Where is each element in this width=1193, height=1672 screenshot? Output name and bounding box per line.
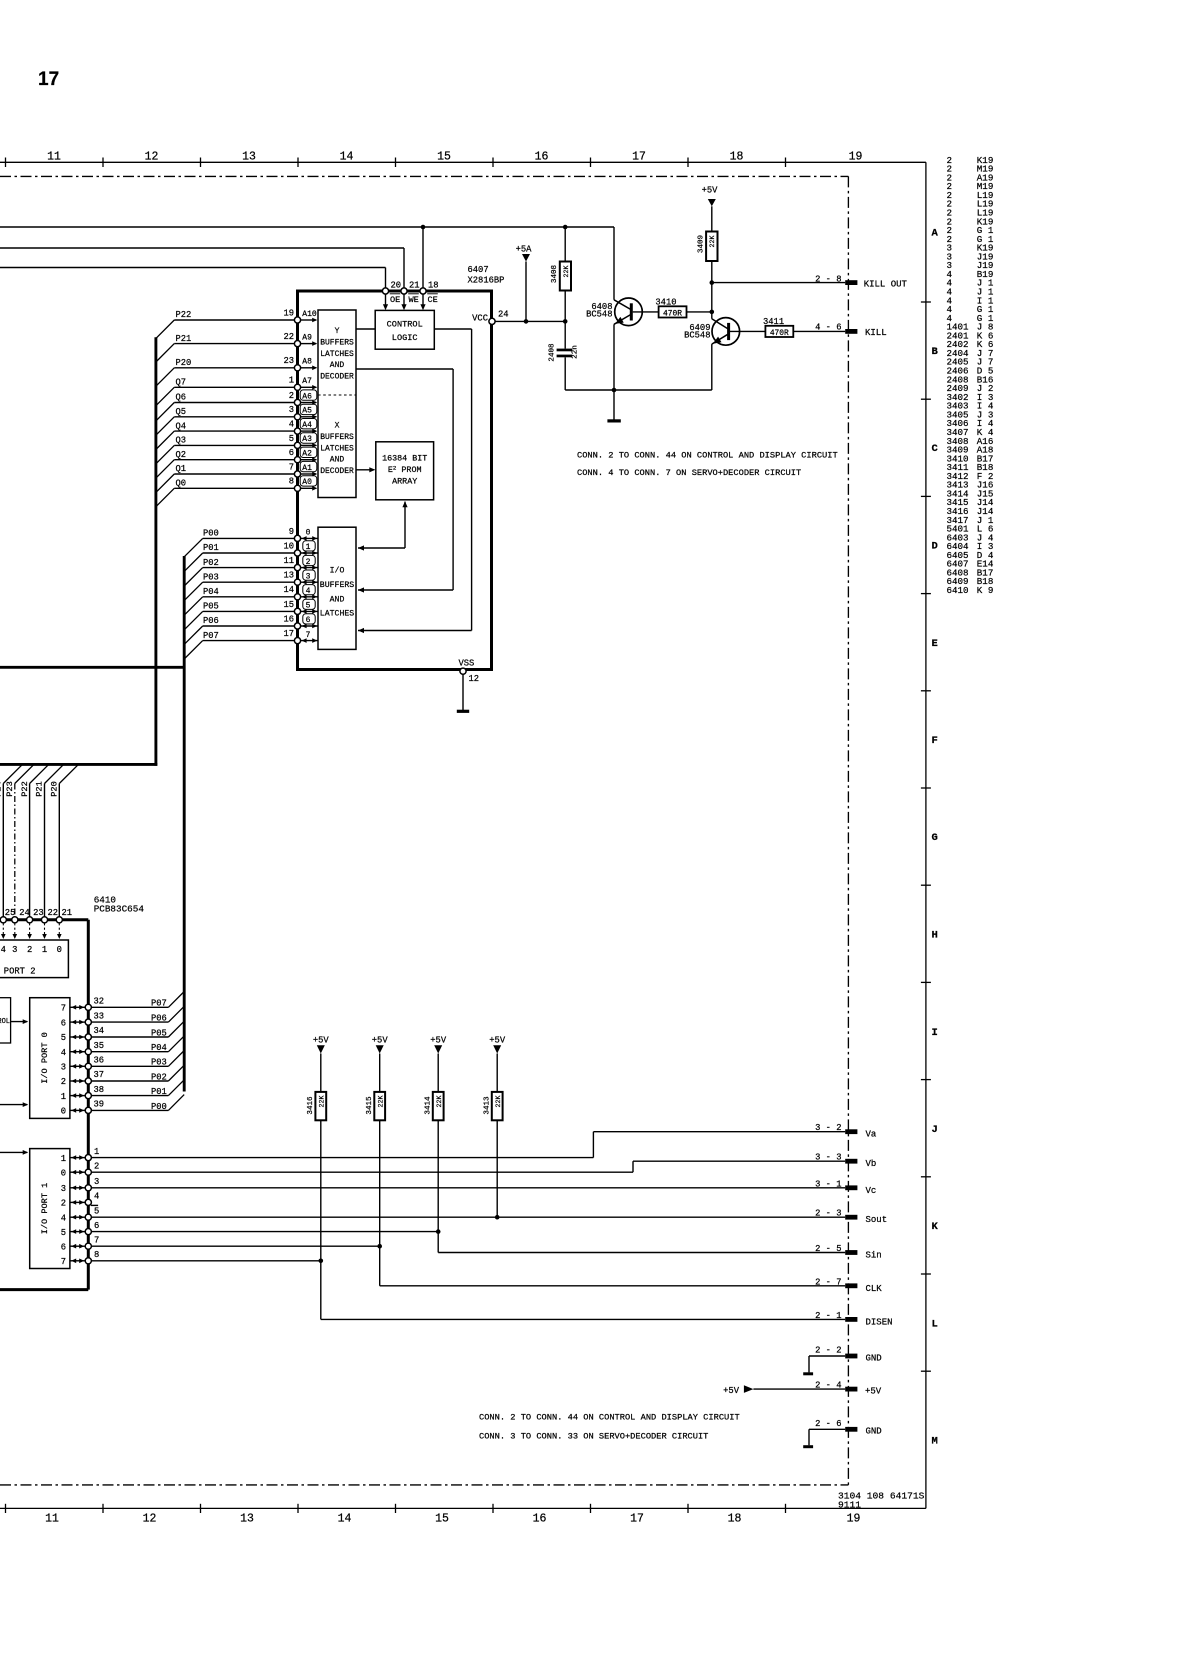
svg-text:6: 6 xyxy=(289,448,294,458)
stub pin4 xyxy=(91,1204,98,1206)
svg-text:+5V: +5V xyxy=(702,186,719,196)
I/O port 1 block xyxy=(30,1149,70,1269)
svg-text:2408: 2408 xyxy=(549,343,557,362)
bus P vertical xyxy=(183,556,186,1092)
svg-text:6: 6 xyxy=(306,616,311,625)
svg-text:3413: 3413 xyxy=(483,1096,491,1115)
svg-text:19: 19 xyxy=(283,308,294,318)
svg-text:3: 3 xyxy=(306,572,311,581)
svg-text:Q6: Q6 xyxy=(176,393,187,403)
svg-text:1: 1 xyxy=(61,1154,66,1164)
pin 3 A5 xyxy=(294,414,300,420)
svg-text:24: 24 xyxy=(498,309,509,319)
svg-text:P00: P00 xyxy=(203,529,219,539)
junction CE net / CE pin xyxy=(421,225,426,230)
pin 20 OE xyxy=(382,288,388,294)
svg-text:12: 12 xyxy=(145,151,159,164)
svg-text:11: 11 xyxy=(45,1513,59,1526)
svg-text:22K: 22K xyxy=(495,1096,502,1108)
svg-text:P01: P01 xyxy=(151,1087,167,1097)
svg-text:2 - 6: 2 - 6 xyxy=(815,1419,841,1429)
wire Sin from pin6 xyxy=(91,1231,438,1233)
svg-text:19: 19 xyxy=(847,1513,861,1526)
svg-text:11: 11 xyxy=(47,151,61,164)
svg-text:P20: P20 xyxy=(50,781,60,796)
svg-text:DECODER: DECODER xyxy=(320,373,354,382)
svg-text:18: 18 xyxy=(428,281,439,291)
pin 15 I/O5 xyxy=(294,608,300,614)
svg-text:+5V: +5V xyxy=(313,1036,330,1046)
svg-text:A3: A3 xyxy=(302,435,312,444)
svg-text:2: 2 xyxy=(61,1199,66,1209)
control logic block xyxy=(375,310,434,349)
svg-text:23: 23 xyxy=(33,908,44,918)
svg-text:2: 2 xyxy=(61,1077,66,1087)
wire WE net xyxy=(0,247,404,249)
svg-text:Vc: Vc xyxy=(866,1186,877,1196)
dash-dot border right xyxy=(847,176,849,1485)
ground 2-2 xyxy=(803,1372,813,1375)
svg-text:X: X xyxy=(335,422,340,431)
pin 10 I/O1 xyxy=(294,550,300,556)
top ruler line xyxy=(0,161,926,163)
svg-text:P04: P04 xyxy=(151,1043,167,1053)
component location list xyxy=(947,155,994,596)
svg-text:AND: AND xyxy=(330,456,345,465)
svg-text:2 - 8: 2 - 8 xyxy=(815,274,841,284)
svg-text:3: 3 xyxy=(12,945,17,955)
wire KILL xyxy=(793,330,845,332)
svg-text:33: 33 xyxy=(94,1011,105,1021)
svg-text:+5V: +5V xyxy=(372,1036,389,1046)
pin 17 I/O7 xyxy=(294,638,300,644)
wire VCC xyxy=(495,320,565,322)
svg-text:22K: 22K xyxy=(319,1096,326,1108)
pin 19 A10 xyxy=(294,317,300,323)
svg-text:2: 2 xyxy=(27,945,32,955)
svg-text:13: 13 xyxy=(240,1513,254,1526)
pin 11 I/O2 xyxy=(294,565,300,571)
svg-text:34: 34 xyxy=(94,1026,105,1036)
svg-text:DISEN: DISEN xyxy=(866,1317,893,1327)
svg-text:P05: P05 xyxy=(203,602,219,612)
svg-text:5: 5 xyxy=(289,434,294,444)
svg-text:16384 BIT: 16384 BIT xyxy=(382,453,427,463)
svg-text:22: 22 xyxy=(283,332,294,342)
resistor 3416 22K xyxy=(315,1092,326,1120)
svg-text:P24: P24 xyxy=(0,781,3,796)
svg-text:8: 8 xyxy=(289,477,294,487)
svg-text:6: 6 xyxy=(61,1018,66,1028)
bus arm P00-P07 off-page xyxy=(0,666,184,669)
svg-text:K: K xyxy=(932,1221,939,1233)
pin 21 port2 xyxy=(58,784,60,917)
svg-text:CONN. 2 TO CONN. 44 ON CONTROL: CONN. 2 TO CONN. 44 ON CONTROL AND DISPL… xyxy=(479,1413,740,1423)
svg-text:+5V: +5V xyxy=(489,1036,506,1046)
svg-text:4: 4 xyxy=(61,1213,66,1223)
svg-text:GND: GND xyxy=(866,1353,882,1363)
internal wire array to I/O xyxy=(404,502,406,548)
svg-text:16: 16 xyxy=(283,614,294,624)
svg-text:VCC: VCC xyxy=(472,314,488,324)
svg-text:P02: P02 xyxy=(151,1072,167,1082)
wire CE net horizontal xyxy=(0,226,614,228)
E2PROM array block xyxy=(376,442,434,500)
svg-text:14: 14 xyxy=(338,1513,352,1526)
svg-text:21: 21 xyxy=(62,908,73,918)
svg-text:ROL: ROL xyxy=(0,1018,10,1026)
svg-text:3: 3 xyxy=(289,405,294,415)
svg-text:Q4: Q4 xyxy=(176,421,187,431)
svg-text:22n: 22n xyxy=(572,345,580,359)
pin 23 A8 xyxy=(294,365,300,371)
svg-text:P22: P22 xyxy=(20,781,30,796)
svg-text:A2: A2 xyxy=(302,450,312,459)
svg-text:4: 4 xyxy=(289,420,294,430)
svg-text:2: 2 xyxy=(94,1161,99,1171)
svg-text:PORT 2: PORT 2 xyxy=(4,967,36,977)
svg-text:AND: AND xyxy=(330,595,345,604)
svg-text:K 9: K 9 xyxy=(977,585,994,596)
svg-text:A9: A9 xyxy=(302,333,312,342)
wire CLK from pin7 xyxy=(91,1245,379,1247)
svg-text:P01: P01 xyxy=(203,543,219,553)
pin 16 I/O6 xyxy=(294,623,300,629)
svg-text:17: 17 xyxy=(632,151,646,164)
resistor 3409 22K xyxy=(706,232,717,262)
wire GND 2-2 xyxy=(809,1355,845,1357)
svg-text:17: 17 xyxy=(38,69,59,90)
svg-text:Q1: Q1 xyxy=(176,464,187,474)
dash-dot border top xyxy=(0,175,848,177)
svg-text:CONN. 3 TO CONN. 33 ON SERVO+D: CONN. 3 TO CONN. 33 ON SERVO+DECODER CIR… xyxy=(479,1432,708,1442)
svg-text:6: 6 xyxy=(61,1242,66,1252)
wire into port0 xyxy=(0,1104,27,1106)
svg-text:KILL OUT: KILL OUT xyxy=(864,279,908,289)
svg-text:5: 5 xyxy=(61,1228,66,1238)
svg-text:LOGIC: LOGIC xyxy=(392,333,418,343)
svg-text:470R: 470R xyxy=(663,309,682,318)
svg-text:1: 1 xyxy=(306,543,311,552)
pin VSS 12 xyxy=(460,668,466,674)
port 2 block xyxy=(0,940,68,978)
svg-text:F: F xyxy=(932,735,938,747)
svg-text:0: 0 xyxy=(57,945,62,955)
pin 1 A7 xyxy=(294,384,300,390)
svg-text:23: 23 xyxy=(283,356,294,366)
svg-text:15: 15 xyxy=(283,600,294,610)
svg-text:3416: 3416 xyxy=(307,1096,315,1115)
svg-text:ARRAY: ARRAY xyxy=(392,477,417,487)
svg-text:+5V: +5V xyxy=(865,1386,882,1396)
ground VSS xyxy=(457,710,469,713)
junction 3413 / Sout xyxy=(495,1215,500,1220)
svg-text:Sout: Sout xyxy=(866,1215,888,1225)
bus Q vertical xyxy=(154,337,157,766)
svg-text:BUFFERS: BUFFERS xyxy=(320,338,354,347)
internal wire X to array xyxy=(356,469,374,471)
svg-text:M: M xyxy=(932,1436,938,1448)
svg-text:Q7: Q7 xyxy=(176,378,187,388)
svg-text:A1: A1 xyxy=(302,464,312,473)
resistor 3413 22K xyxy=(492,1092,503,1120)
svg-text:6: 6 xyxy=(94,1221,99,1231)
svg-text:I/O PORT 1: I/O PORT 1 xyxy=(40,1183,50,1235)
svg-text:14: 14 xyxy=(340,151,354,164)
internal wire control to I/O xyxy=(434,328,471,330)
I/O port 0 block xyxy=(30,998,70,1119)
svg-text:17: 17 xyxy=(630,1513,644,1526)
svg-text:7: 7 xyxy=(289,462,294,472)
svg-text:B: B xyxy=(932,346,939,358)
svg-text:4: 4 xyxy=(61,1048,66,1058)
svg-text:CONN. 2 TO CONN. 44 ON CONTROL: CONN. 2 TO CONN. 44 ON CONTROL AND DISPL… xyxy=(577,450,838,460)
wire CE vertical xyxy=(422,227,424,288)
right border ticks xyxy=(921,302,931,1371)
svg-text:C: C xyxy=(932,443,939,455)
svg-text:P04: P04 xyxy=(203,587,219,597)
resistor 3414 22K xyxy=(433,1092,444,1120)
svg-text:P23: P23 xyxy=(5,781,15,796)
svg-text:P02: P02 xyxy=(203,558,219,568)
svg-text:22K: 22K xyxy=(709,236,716,248)
junction VCC / 3408 net xyxy=(563,319,568,324)
svg-text:P00: P00 xyxy=(151,1102,167,1112)
pin 2 A6 xyxy=(294,399,300,405)
svg-text:32: 32 xyxy=(94,997,105,1007)
capacitor 2408 22n xyxy=(557,349,573,352)
svg-text:A8: A8 xyxy=(302,358,312,367)
wire VSS to ground xyxy=(462,674,464,710)
wire into port1 xyxy=(0,1151,27,1153)
wire DISEN from pin8 xyxy=(91,1260,320,1262)
svg-text:9111: 9111 xyxy=(838,1500,861,1511)
wire to ground xyxy=(613,390,615,420)
svg-text:38: 38 xyxy=(94,1085,105,1095)
svg-text:7: 7 xyxy=(61,1257,66,1267)
pin 21 WE xyxy=(401,288,407,294)
svg-text:3: 3 xyxy=(61,1063,66,1073)
svg-text:21: 21 xyxy=(409,281,420,291)
wire KILL OUT xyxy=(712,282,845,284)
svg-text:2 - 1: 2 - 1 xyxy=(815,1311,841,1321)
svg-text:3415: 3415 xyxy=(366,1096,374,1115)
internal wire Y to I/O xyxy=(356,368,453,370)
svg-text:P21: P21 xyxy=(176,334,192,344)
svg-text:P07: P07 xyxy=(151,999,167,1009)
wire Sout from pin5 xyxy=(91,1216,845,1218)
svg-text:GND: GND xyxy=(866,1427,882,1437)
svg-text:BC548: BC548 xyxy=(586,310,612,320)
svg-text:14: 14 xyxy=(283,585,294,595)
svg-text:L: L xyxy=(932,1319,938,1331)
svg-text:2: 2 xyxy=(306,558,311,567)
svg-text:7: 7 xyxy=(94,1235,99,1245)
svg-text:A6: A6 xyxy=(302,392,312,401)
pin 25 port2 xyxy=(2,784,4,917)
svg-text:KILL: KILL xyxy=(865,328,887,338)
svg-text:13: 13 xyxy=(242,151,256,164)
svg-text:22K: 22K xyxy=(563,266,570,278)
svg-text:0: 0 xyxy=(306,529,311,538)
wire base 6409 to 3411 xyxy=(730,330,765,332)
svg-text:Q5: Q5 xyxy=(176,407,187,417)
svg-text:2 - 7: 2 - 7 xyxy=(815,1277,841,1287)
svg-text:CONTROL: CONTROL xyxy=(387,320,423,330)
svg-text:P21: P21 xyxy=(35,781,45,796)
svg-text:H: H xyxy=(932,930,938,942)
svg-text:6410: 6410 xyxy=(947,585,969,596)
svg-text:22: 22 xyxy=(48,908,59,918)
svg-text:2 - 2: 2 - 2 xyxy=(815,1346,841,1356)
svg-text:3408: 3408 xyxy=(551,264,559,283)
svg-text:A: A xyxy=(932,228,939,240)
internal wire Y to control xyxy=(356,328,375,330)
pin 7 A1 xyxy=(294,471,300,477)
svg-text:17: 17 xyxy=(283,629,294,639)
svg-text:35: 35 xyxy=(94,1041,105,1051)
bottom ruler ticks xyxy=(6,1504,786,1513)
row letters A-M xyxy=(932,228,939,1448)
svg-text:3 - 2: 3 - 2 xyxy=(815,1123,841,1133)
svg-text:X2816BP: X2816BP xyxy=(468,276,505,286)
junction CE net / resistor 3408 xyxy=(563,225,568,230)
junction KILL OUT xyxy=(710,280,715,285)
svg-text:BUFFERS: BUFFERS xyxy=(320,433,354,442)
pin 4 A4 xyxy=(294,428,300,434)
svg-text:3: 3 xyxy=(94,1177,99,1187)
svg-text:5: 5 xyxy=(61,1033,66,1043)
wire 3409 to node xyxy=(711,261,713,319)
svg-text:5: 5 xyxy=(94,1206,99,1216)
svg-text:BUFFERS: BUFFERS xyxy=(320,581,354,590)
pin 23 port2 xyxy=(29,784,31,917)
svg-text:CONN. 4 TO CONN. 7 ON SERVO+DE: CONN. 4 TO CONN. 7 ON SERVO+DECODER CIRC… xyxy=(577,468,801,478)
svg-text:LATCHES: LATCHES xyxy=(320,610,354,619)
svg-text:12: 12 xyxy=(143,1513,157,1526)
bottom ruler line xyxy=(0,1507,926,1509)
svg-text:12: 12 xyxy=(469,674,480,684)
svg-text:P06: P06 xyxy=(203,616,219,626)
junction 3416 / DISEN xyxy=(319,1259,324,1264)
svg-text:CLK: CLK xyxy=(866,1284,883,1294)
top ruler ticks xyxy=(6,158,786,168)
wire 3410 to node xyxy=(687,311,712,313)
svg-text:19: 19 xyxy=(849,151,863,164)
svg-text:AND: AND xyxy=(330,361,345,370)
svg-text:13: 13 xyxy=(283,571,294,581)
junction 3414 / Sin xyxy=(436,1229,441,1234)
svg-text:2 - 4: 2 - 4 xyxy=(815,1380,841,1390)
svg-text:3414: 3414 xyxy=(424,1096,432,1115)
pin 5 A3 xyxy=(294,442,300,448)
svg-text:3: 3 xyxy=(61,1184,66,1194)
svg-text:2: 2 xyxy=(289,391,294,401)
pin VCC 24 xyxy=(489,318,495,324)
pin 6 A2 xyxy=(294,457,300,463)
svg-text:1: 1 xyxy=(42,945,47,955)
svg-text:P03: P03 xyxy=(151,1058,167,1068)
svg-text:VSS: VSS xyxy=(459,658,475,668)
svg-text:4: 4 xyxy=(306,587,311,596)
wire Vc from pin3 xyxy=(91,1187,845,1189)
wire Vb from pin2 xyxy=(91,1171,633,1173)
svg-text:2 - 5: 2 - 5 xyxy=(815,1244,841,1254)
bus arm Q off-page xyxy=(0,763,157,766)
svg-text:7: 7 xyxy=(61,1004,66,1014)
svg-text:J: J xyxy=(932,1124,938,1136)
right border line xyxy=(925,162,927,1508)
svg-text:16: 16 xyxy=(533,1513,547,1526)
wire +5V 2-4 xyxy=(753,1388,845,1390)
svg-text:P20: P20 xyxy=(176,358,192,368)
svg-text:22K: 22K xyxy=(436,1096,443,1108)
Y/X buffers block xyxy=(318,310,356,498)
junction 3415 / CLK xyxy=(377,1244,382,1249)
ground 2-6 xyxy=(803,1445,813,1448)
svg-text:G: G xyxy=(932,832,938,844)
svg-text:I/O: I/O xyxy=(330,566,345,576)
svg-text:P06: P06 xyxy=(151,1014,167,1024)
svg-text:7: 7 xyxy=(306,631,311,640)
ground symbol xyxy=(607,419,620,422)
bottom ruler numbers 11-19 xyxy=(45,1513,860,1526)
svg-text:36: 36 xyxy=(94,1056,105,1066)
svg-text:Q2: Q2 xyxy=(176,450,187,460)
svg-text:DECODER: DECODER xyxy=(320,467,354,476)
svg-text:I/O PORT 0: I/O PORT 0 xyxy=(40,1032,50,1084)
svg-text:18: 18 xyxy=(728,1513,742,1526)
svg-text:P22: P22 xyxy=(176,310,192,320)
resistor 3415 22K xyxy=(374,1092,385,1120)
svg-text:Va: Va xyxy=(866,1130,877,1140)
junction ground stub xyxy=(612,388,617,393)
wire control to port0 xyxy=(11,1021,28,1023)
wire Va from pin1 xyxy=(91,1157,593,1159)
pin 22 A9 xyxy=(294,341,300,347)
wire GND 2-6 xyxy=(809,1428,845,1430)
svg-text:I: I xyxy=(932,1027,938,1039)
resistor 3408 22K xyxy=(564,227,566,262)
svg-text:LATCHES: LATCHES xyxy=(320,444,354,453)
pin 13 I/O3 xyxy=(294,579,300,585)
svg-text:0: 0 xyxy=(61,1107,66,1117)
pin 8 A0 xyxy=(294,485,300,491)
svg-text:BC548: BC548 xyxy=(684,331,710,341)
pin 22 port2 xyxy=(44,784,46,917)
pin 9 I/O0 xyxy=(294,535,300,541)
svg-text:WE: WE xyxy=(409,295,419,305)
svg-text:4 - 6: 4 - 6 xyxy=(815,323,841,333)
svg-text:Q3: Q3 xyxy=(176,436,187,446)
junction VCC / +5A xyxy=(524,319,529,324)
svg-text:A4: A4 xyxy=(302,421,312,430)
svg-text:3 - 3: 3 - 3 xyxy=(815,1153,841,1163)
svg-text:LATCHES: LATCHES xyxy=(320,350,354,359)
svg-text:1: 1 xyxy=(94,1147,99,1157)
svg-text:0: 0 xyxy=(61,1168,66,1178)
junction node B17 xyxy=(710,310,715,315)
wire OE net xyxy=(0,267,386,269)
top ruler numbers 11-19 xyxy=(47,151,862,164)
svg-text:Q0: Q0 xyxy=(176,479,187,489)
svg-text:+5A: +5A xyxy=(516,245,533,255)
svg-text:470R: 470R xyxy=(770,329,789,338)
svg-text:20: 20 xyxy=(391,281,402,291)
svg-text:8: 8 xyxy=(94,1250,99,1260)
svg-text:OE: OE xyxy=(390,295,400,305)
svg-text:1: 1 xyxy=(289,376,294,386)
